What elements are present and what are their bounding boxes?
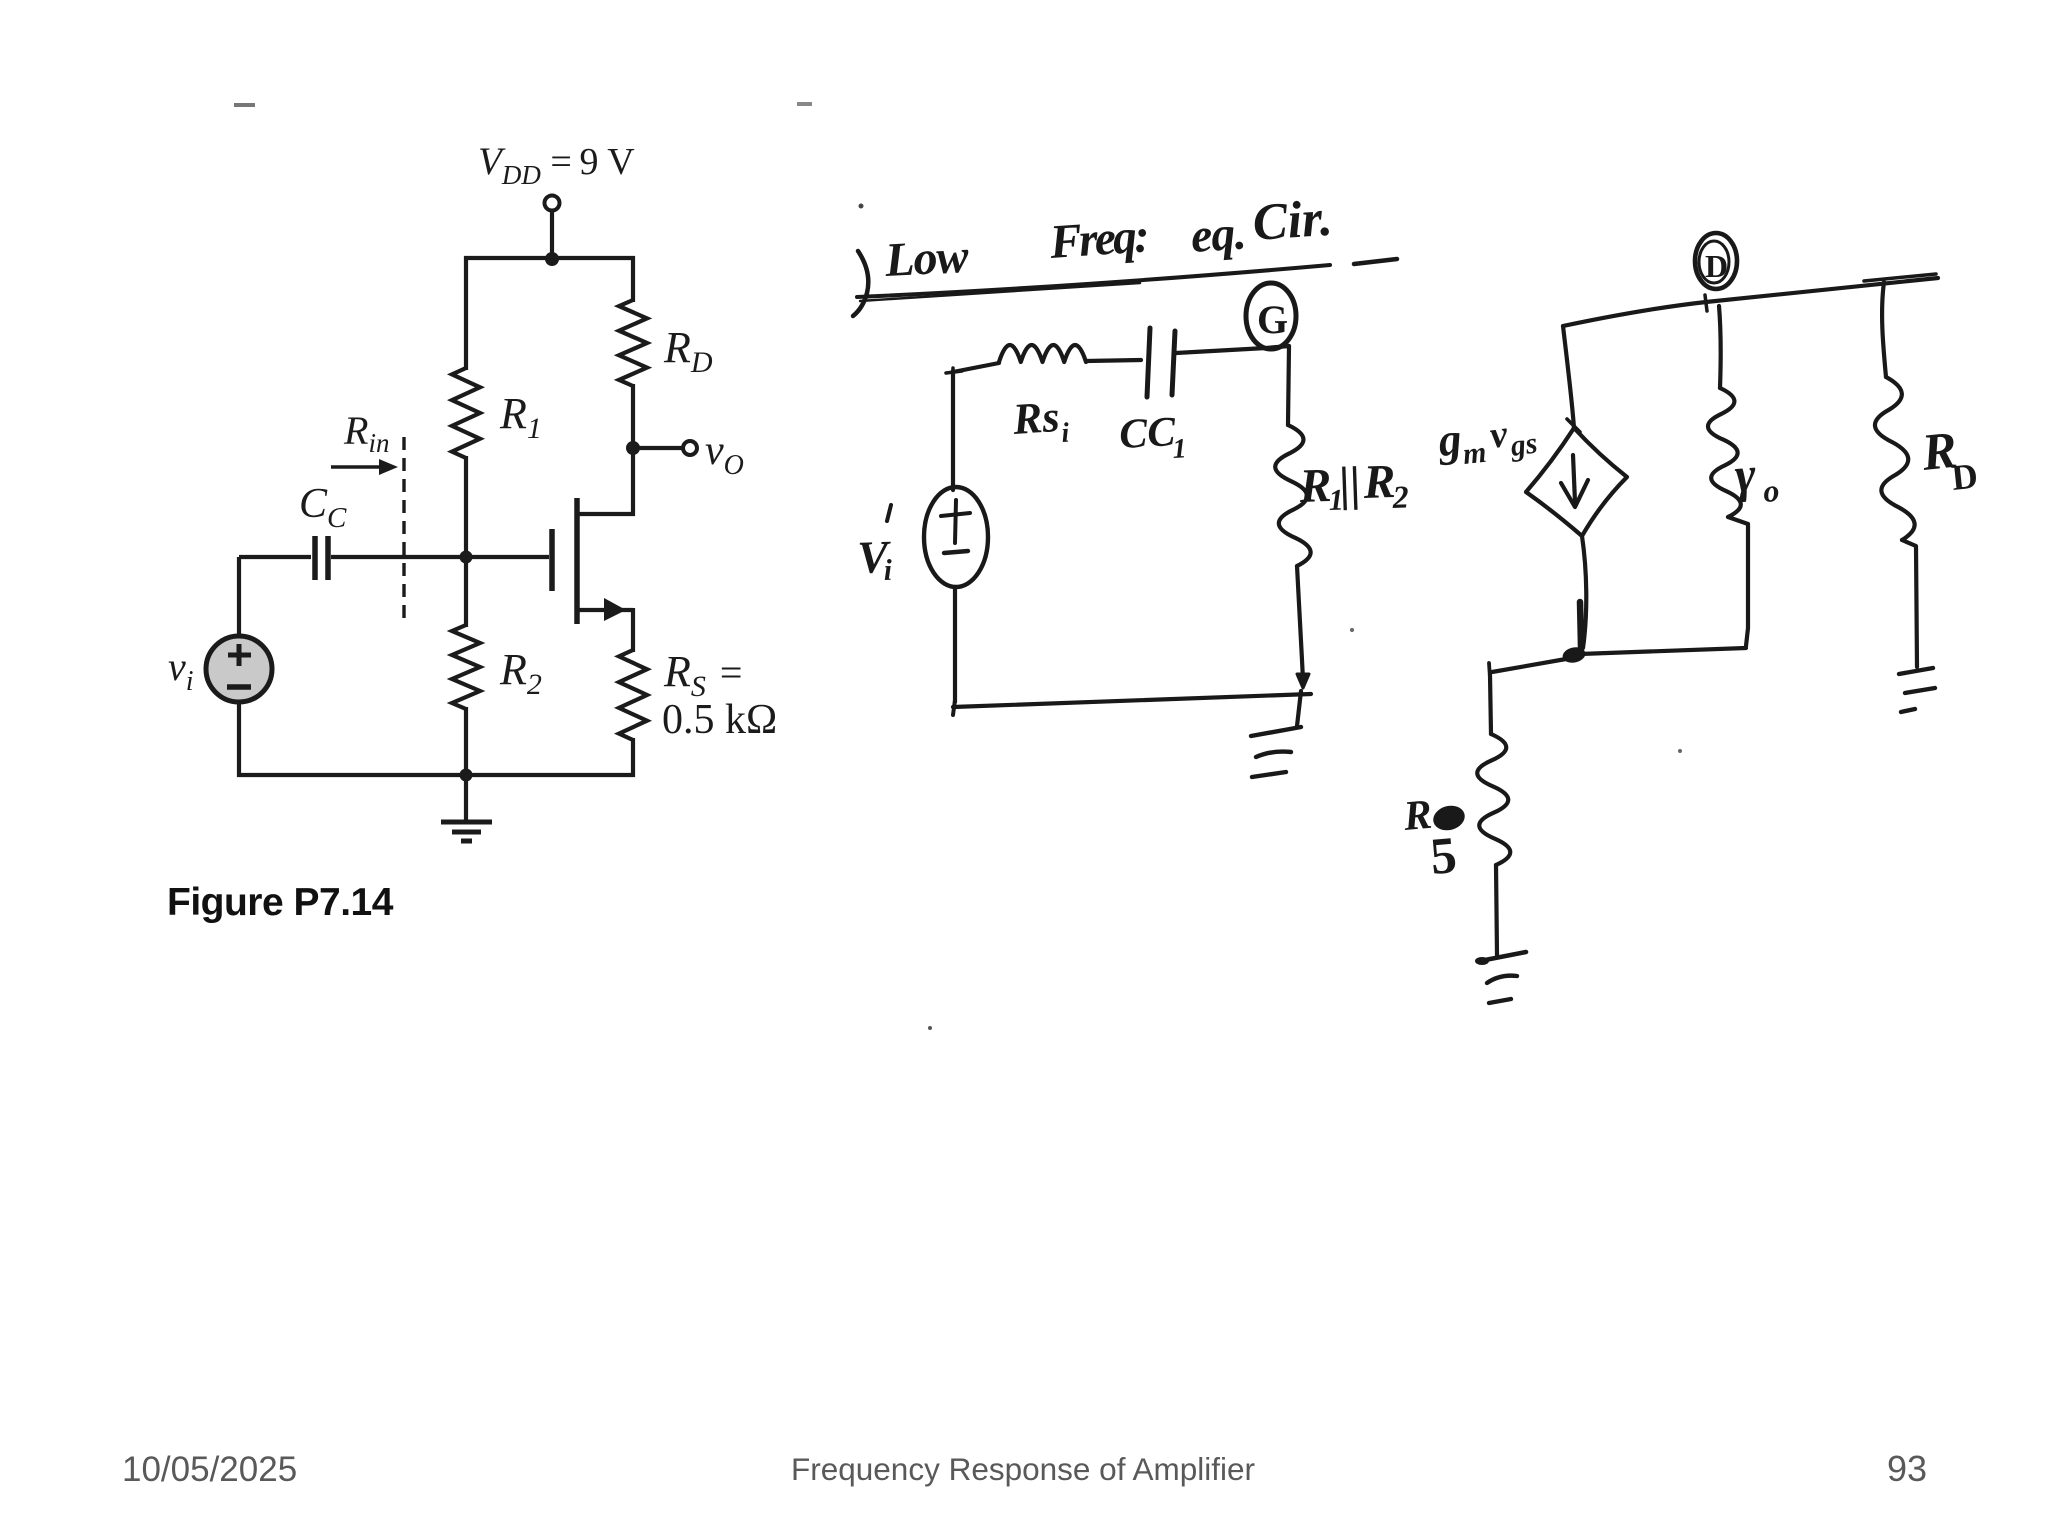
svg-text:Freq:: Freq:: [1047, 209, 1148, 269]
svg-text:||: ||: [1339, 457, 1362, 511]
svg-text:Frequency Response of Amplifie: Frequency Response of Amplifier: [791, 1451, 1255, 1487]
svg-text:0.5 kΩ: 0.5 kΩ: [662, 697, 777, 743]
svg-text:D: D: [1950, 455, 1980, 497]
svg-text:o: o: [1762, 472, 1780, 509]
svg-text:VDD = 9 V: VDD = 9 V: [478, 140, 635, 190]
svg-text:m: m: [1461, 436, 1488, 471]
svg-text:gs: gs: [1507, 427, 1539, 464]
svg-text:93: 93: [1887, 1448, 1927, 1489]
svg-text:R: R: [1298, 459, 1333, 513]
svg-text:G: G: [1257, 297, 1288, 342]
svg-text:2: 2: [1391, 478, 1409, 515]
svg-text:10/05/2025: 10/05/2025: [122, 1450, 297, 1489]
svg-text:5: 5: [1428, 827, 1459, 886]
svg-text:Rs: Rs: [1010, 392, 1061, 444]
svg-text:eq.: eq.: [1189, 206, 1247, 263]
svg-text:1: 1: [1172, 433, 1188, 465]
svg-text:Figure P7.14: Figure P7.14: [167, 881, 394, 924]
svg-text:γ: γ: [1733, 446, 1758, 503]
svg-text:D: D: [1705, 248, 1728, 284]
svg-text:Cir.: Cir.: [1251, 190, 1334, 252]
svg-text:Low: Low: [883, 230, 971, 287]
svg-text:CC: CC: [1118, 409, 1177, 458]
